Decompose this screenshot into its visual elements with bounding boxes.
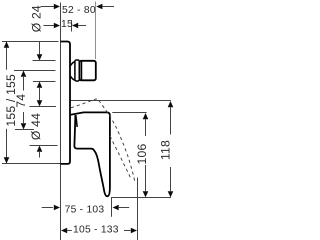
knob neck <box>71 62 76 81</box>
knob body <box>79 61 95 81</box>
dimension Ø 44 arrows (outside) <box>37 100 43 106</box>
lever open position (dashed) front edge <box>99 101 136 184</box>
svg-text:Ø 24: Ø 24 <box>30 5 44 32</box>
svg-text:Ø 44: Ø 44 <box>29 113 43 140</box>
dimension 155 / 155 <box>6 42 8 70</box>
lever handle (closed) <box>70 112 110 196</box>
knob ring <box>75 60 79 81</box>
wall line <box>60 3 62 240</box>
hub top extension line <box>30 106 57 108</box>
dimension 15 <box>43 25 54 27</box>
lever top extension line <box>112 112 146 114</box>
dimension 106 <box>143 113 149 119</box>
74 bottom extension line <box>15 129 34 131</box>
bottom reference line <box>111 197 171 199</box>
dimension Ø 24 arrows (outside) <box>39 42 41 55</box>
svg-text:15: 15 <box>61 19 73 30</box>
stub line for 15 dim <box>71 21 73 32</box>
lever open position (dashed) top edge <box>71 99 99 108</box>
lever open position (dashed) back edge <box>110 136 131 180</box>
extension line bottom of escutcheon <box>2 163 60 165</box>
svg-text:75 - 103: 75 - 103 <box>65 204 105 215</box>
hub bottom extension line <box>30 145 58 147</box>
lever hub inner line <box>76 115 77 127</box>
svg-text:118: 118 <box>159 140 173 160</box>
extension line top of escutcheon <box>2 41 59 43</box>
svg-text:74: 74 <box>14 94 28 108</box>
lever tip extension line <box>111 198 113 217</box>
svg-text:106: 106 <box>135 144 149 165</box>
lever open tip extension line <box>137 178 139 240</box>
dimension 74 <box>23 77 25 91</box>
gray extension line knob front <box>95 2 97 60</box>
dimension 52 - 80 <box>41 6 54 8</box>
dimension 105 - 133 <box>61 228 67 234</box>
dimension 118 <box>168 101 174 107</box>
svg-text:52 - 80: 52 - 80 <box>62 5 96 16</box>
knob bottom extension line <box>33 81 56 83</box>
escutcheon plate (side view) <box>61 42 71 164</box>
knob groove <box>81 61 83 80</box>
knob centre extension line <box>14 70 56 72</box>
svg-text:105 - 133: 105 - 133 <box>73 225 119 236</box>
knob top extension line <box>33 60 56 62</box>
dimension 75 - 103 <box>42 207 53 209</box>
lever open top extension line <box>71 100 171 102</box>
